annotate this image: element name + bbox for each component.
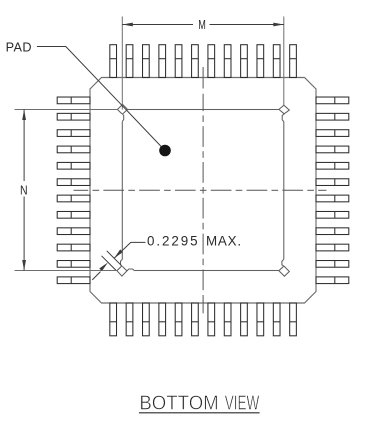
right pin column (12 leads) (316, 97, 349, 284)
svg-text:MAX.: MAX. (206, 233, 241, 248)
corner relief top-right (279, 105, 289, 114)
vertical centerline (202, 67, 204, 313)
dimension M: extension line right (283, 17, 285, 106)
svg-text:M: M (198, 17, 206, 32)
svg-text:BOTTOM: BOTTOM (139, 392, 218, 414)
corner relief bottom-left (117, 266, 127, 276)
PAD leader line (37, 47, 165, 151)
corner relief top-left (117, 104, 127, 114)
dimension N: extension line bottom (15, 270, 117, 272)
edge jog below top-right relief (283, 114, 285, 122)
svg-text:0.2295: 0.2295 (147, 233, 198, 248)
dimension M: extension line left (121, 17, 123, 110)
edge jog above bottom-left relief (121, 259, 123, 266)
lead width extension line b (102, 256, 116, 270)
dimension N: extension line top (15, 109, 118, 111)
title underline (139, 412, 260, 414)
svg-text:PAD: PAD (6, 41, 32, 55)
dimension M: dimension line with arrows (122, 24, 283, 26)
inner bottom surface outline (122, 110, 283, 271)
upper-right arrow with leader to label (114, 242, 145, 258)
top pin row (12 leads) (110, 45, 297, 78)
svg-text:VIEW: VIEW (225, 392, 260, 414)
left pin column (12 leads) (57, 97, 90, 284)
horizontal centerline (74, 189, 327, 191)
edge jog right of bottom-left relief (128, 270, 134, 272)
package body outline (chamfered square, bottom view) (90, 78, 316, 304)
dimension N: dimension line with arrows (23, 110, 25, 271)
PAD dot (thermal pad marker) (159, 145, 171, 157)
edge jog above bottom-right relief (283, 259, 285, 266)
corner relief bottom-right (279, 266, 289, 276)
edge jog below top-left relief (121, 114, 123, 122)
lead width extension line a (107, 251, 122, 265)
bottom pin row (12 leads) (110, 303, 297, 336)
svg-text:N: N (20, 183, 28, 198)
lower-left arrow (92, 272, 100, 280)
